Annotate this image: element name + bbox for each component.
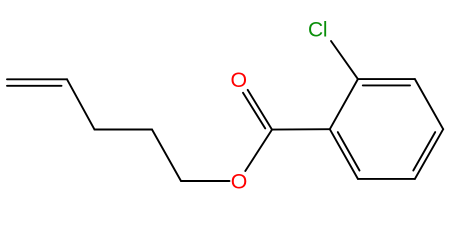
bond O1-C7 — [245, 130, 272, 171]
ring bond C6r-C1r — [330, 129, 358, 179]
ring bond C2r=C3r inner line — [363, 84, 410, 86]
bond C7=O2 main line — [248, 90, 272, 130]
svg-text:O: O — [231, 68, 248, 92]
ring bond C4r=C5r inner line — [413, 132, 435, 170]
bond C2r-Cl — [331, 41, 358, 79]
svg-text:Cl: Cl — [308, 19, 328, 42]
svg-text:O: O — [231, 169, 248, 193]
bond C4-C5 — [152, 130, 181, 182]
ring bond C3r-C4r — [415, 79, 443, 129]
bond C1=C2 second line — [7, 85, 62, 87]
ring bond C5r-C6r — [358, 178, 415, 180]
ring bond C2r-C3r — [358, 78, 415, 80]
ring bond C1r-C2r — [330, 79, 358, 129]
bond C1=C2 main line — [7, 78, 67, 80]
bond C7=O2 second line — [243, 93, 265, 129]
bond C2-C3 — [67, 79, 95, 129]
ring bond C6r=C1r inner line — [338, 132, 360, 170]
bond C5-O1 ester — [181, 180, 230, 182]
ring bond C4r-C5r — [415, 129, 443, 179]
bond C3-C4 — [95, 129, 153, 131]
bond C7-C1r — [272, 128, 330, 130]
